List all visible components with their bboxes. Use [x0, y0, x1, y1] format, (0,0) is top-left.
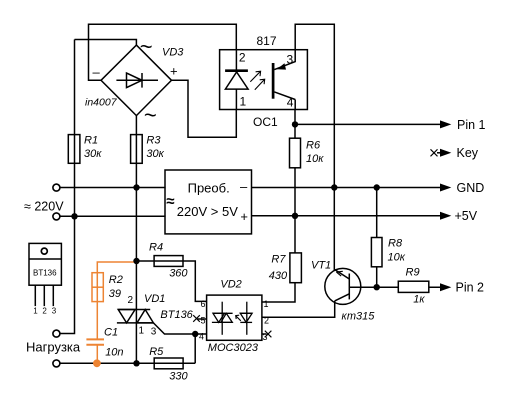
junction dot triac MT1 load: [133, 360, 139, 366]
svg-text:–: –: [93, 65, 101, 80]
junction dot GND opto: [331, 184, 337, 190]
svg-text:кт315: кт315: [342, 310, 376, 322]
junction dot row2 left vertical: [71, 213, 77, 219]
svg-text:330: 330: [169, 370, 188, 382]
MOC3023 inner left triac: [212, 302, 233, 335]
MOC3023 inner light arrow: [236, 315, 241, 321]
transistor VT1 internals: [335, 270, 377, 301]
optocoupler LED: [225, 50, 248, 110]
svg-text:2: 2: [128, 295, 134, 306]
wire bridge bottom through R3 down to triac and load: [135, 116, 137, 364]
svg-text:Pin 2: Pin 2: [456, 280, 485, 294]
arrow GND: [440, 184, 451, 192]
svg-text:in4007: in4007: [85, 96, 118, 108]
junction dot GND R8: [374, 184, 380, 190]
svg-text:VD1: VD1: [144, 293, 165, 305]
resistor R5 330: [154, 358, 183, 369]
svg-text:4: 4: [287, 96, 294, 110]
svg-text:5: 5: [201, 315, 206, 325]
optocoupler OC1 box: [220, 50, 308, 110]
svg-text:430: 430: [269, 270, 288, 282]
wire VT1 emitter down and left to MOC pin2: [262, 301, 335, 317]
wire load bottom row through R5: [60, 362, 195, 364]
svg-text:R7: R7: [271, 254, 286, 266]
svg-text:+: +: [170, 64, 178, 79]
bridge diode symbol inside VD3: [116, 73, 158, 88]
svg-text:3: 3: [287, 52, 294, 66]
svg-text:39: 39: [109, 288, 121, 300]
svg-text:R6: R6: [306, 139, 321, 151]
svg-text:~: ~: [140, 34, 153, 59]
svg-text:Pin 1: Pin 1: [457, 118, 486, 132]
MOC3023 VD2 box: [207, 295, 262, 340]
svg-text:1: 1: [33, 307, 38, 316]
svg-text:4: 4: [199, 332, 204, 342]
wire 220V row2 into converter: [60, 215, 165, 217]
wire Pin 1 line: [295, 123, 441, 125]
wire R5 right up to MOC pin4: [195, 334, 206, 363]
resistor R7 430: [290, 253, 302, 283]
svg-text:Key: Key: [457, 146, 479, 160]
terminal 220V upper: [53, 184, 60, 191]
svg-text:220V > 5V: 220V > 5V: [177, 204, 238, 219]
resistor R8 10k: [371, 238, 382, 267]
wire R4 branch: [137, 261, 207, 301]
svg-text:BT136: BT136: [160, 309, 193, 321]
optocoupler light arrows: [250, 71, 264, 90]
svg-text:R5: R5: [149, 346, 164, 358]
svg-text:C1: C1: [104, 326, 118, 338]
svg-text:3: 3: [151, 326, 157, 337]
wire +5V line: [251, 215, 441, 217]
terminal load upper: [53, 330, 60, 337]
wire R6 R7 vertical and to MOC pin1: [262, 124, 295, 302]
transistor VT1 circle: [325, 268, 361, 304]
svg-text:1: 1: [240, 94, 247, 108]
svg-text:10n: 10n: [105, 346, 123, 358]
svg-text:VT1: VT1: [311, 259, 331, 271]
wire orange snubber branch R2 C1: [97, 262, 136, 363]
svg-text:MOC3023: MOC3023: [208, 342, 259, 354]
svg-text:R8: R8: [388, 237, 403, 249]
wire opto pin4 to Pin1 node: [294, 110, 296, 125]
resistor R1 30k: [68, 135, 80, 164]
wire base row to Pin 2: [349, 286, 441, 288]
svg-text:30к: 30к: [84, 148, 102, 160]
wire bridge plus down to optocoupler pin1: [172, 80, 237, 137]
junction dot Pin1 node: [292, 121, 298, 127]
svg-text:1: 1: [139, 326, 145, 337]
wire from left vertical to bridge top vertex: [75, 40, 137, 46]
svg-text:Преоб.: Преоб.: [188, 181, 230, 196]
terminal load lower: [53, 360, 60, 367]
arrow Pin 2: [440, 283, 451, 291]
svg-text:30к: 30к: [146, 148, 164, 160]
arrow +5V: [440, 212, 451, 220]
svg-text:10к: 10к: [306, 153, 324, 165]
optocoupler phototransistor: [273, 50, 295, 110]
svg-text:R3: R3: [146, 134, 161, 146]
svg-text:R4: R4: [149, 241, 163, 253]
svg-text:Нагрузка: Нагрузка: [26, 340, 81, 355]
wire left main vertical through R1 down to load branch: [60, 40, 74, 334]
svg-text:R2: R2: [109, 274, 123, 286]
svg-text:+5V: +5V: [455, 209, 478, 223]
resistor R4 360: [154, 256, 183, 267]
svg-text:~: ~: [144, 102, 157, 127]
wire triac gate to MOC pin4 node: [153, 323, 195, 334]
svg-text:OC1: OC1: [253, 115, 278, 129]
junction dot base R8 R9: [374, 284, 380, 290]
MOC3023 pin5 stub with x: [193, 315, 206, 322]
svg-text:2: 2: [264, 315, 269, 325]
junction dot bridge bottom row1: [133, 184, 139, 190]
svg-text:+: +: [240, 209, 248, 224]
svg-text:1к: 1к: [413, 293, 425, 305]
junction dot MOC pin4 node: [192, 331, 198, 337]
wire R8 vertical GND to base: [376, 188, 378, 288]
svg-text:–: –: [240, 179, 248, 194]
wire 220V row1 into converter: [60, 187, 165, 189]
arrow Pin 1: [440, 120, 451, 128]
junction dot R4 node: [133, 258, 139, 264]
resistor R9 1k: [398, 281, 429, 292]
svg-text:VD2: VD2: [220, 279, 241, 291]
svg-text:360: 360: [169, 267, 188, 279]
svg-text:2: 2: [42, 307, 47, 316]
converter box Преоб 220V to 5V: [165, 170, 252, 234]
resistor R6 10k: [290, 138, 301, 168]
wire opto pin3 up over and down to VT1: [295, 24, 334, 270]
junction dot +5V R6: [292, 213, 298, 219]
resistor R3 30k: [131, 135, 143, 164]
svg-text:10к: 10к: [388, 251, 406, 263]
svg-text:≈ 220V: ≈ 220V: [24, 199, 64, 213]
arrow Key with x: [431, 149, 452, 157]
svg-text:VD3: VD3: [162, 46, 184, 58]
terminal 220V lower: [53, 213, 60, 220]
bridge rectifier VD3 diamond: [101, 45, 172, 116]
junction dot C1 orange: [93, 359, 101, 367]
MOC3023 pin3 stub with x: [262, 331, 272, 338]
svg-text:817: 817: [257, 34, 277, 48]
svg-text:3: 3: [52, 307, 57, 316]
svg-text:3: 3: [263, 332, 268, 342]
svg-text:BT136: BT136: [33, 269, 57, 278]
TO-220 package BT136: [29, 243, 61, 306]
wire GND line: [251, 187, 441, 189]
svg-text:R9: R9: [406, 267, 420, 279]
wire top from bridge minus up and across to optocoupler pin2: [89, 24, 237, 80]
svg-text:6: 6: [201, 299, 206, 309]
svg-text:GND: GND: [457, 181, 485, 195]
resistor R2 39 orange: [92, 273, 103, 302]
svg-text:2: 2: [239, 50, 246, 64]
svg-text:1: 1: [264, 299, 269, 309]
svg-text:≈: ≈: [166, 193, 174, 210]
capacitor C1 10n orange: [86, 339, 104, 344]
MOC3023 inner right triac: [240, 302, 252, 335]
svg-text:R1: R1: [84, 134, 98, 146]
triac VD1: [117, 310, 153, 323]
